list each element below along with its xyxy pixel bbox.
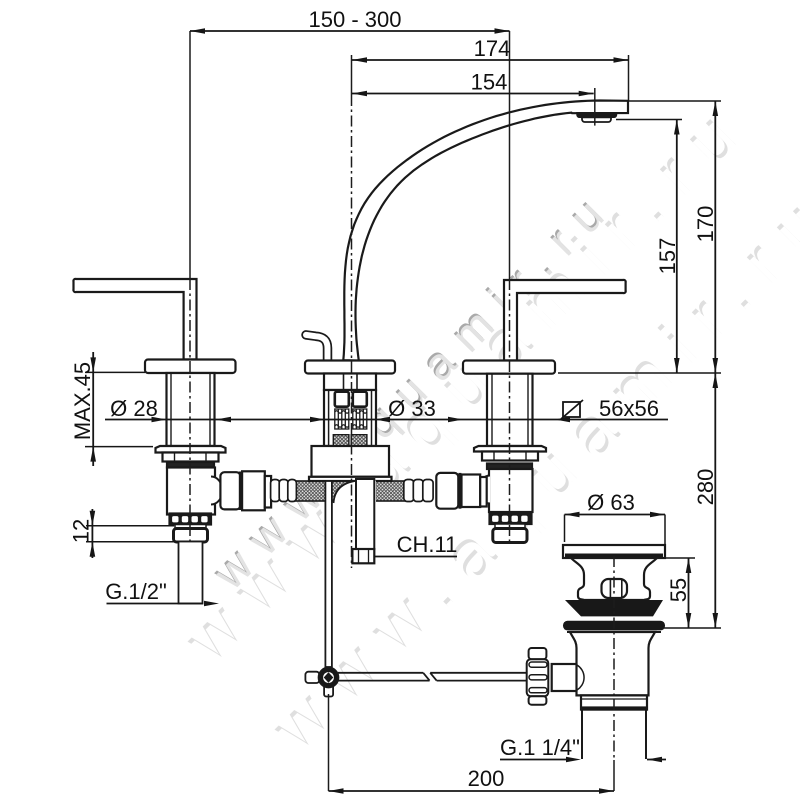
dim 154 line [352,93,594,95]
left escutcheon [145,360,236,374]
svg-text:G.1 1/4": G.1 1/4" [500,735,580,760]
svg-text:174: 174 [474,36,511,61]
center escutcheon [305,361,395,374]
drain crown nut [527,648,549,705]
CH.11 leader [374,556,457,558]
svg-text:Ø 33: Ø 33 [388,396,436,421]
ext Ø63 right [664,515,666,557]
black cone seat [565,600,663,616]
svg-text:MAX.45: MAX.45 [70,362,95,440]
pop-up rod knob above deck [306,335,328,361]
left side hex 2 [242,471,265,510]
svg-text:154: 154 [471,70,508,95]
svg-text:170: 170 [693,206,718,243]
ext 55 cap bottom [666,557,695,559]
center neck [324,374,376,391]
centerlines layer [190,31,629,791]
dim 157 line [676,120,678,374]
ext drain gasket bottom [664,627,721,629]
right seal band [487,464,532,470]
left ferrule [271,480,297,502]
dim 280 line [714,373,716,628]
cartridge window right [353,392,367,407]
svg-text:CH.11: CH.11 [397,532,458,557]
right escutcheon [463,361,555,374]
dimension layer [85,28,721,794]
left tailpiece tube [179,542,203,604]
dim 55 line [688,558,690,628]
strainer neck [571,558,657,600]
spout tip extension line [628,55,630,101]
pop-up lift rod [325,481,332,667]
left valve upper cylinder [167,373,215,446]
dim Ø63 line [565,514,666,516]
left handle centerline [189,31,191,279]
left side bulge [211,477,223,505]
svg-text:Ø 28: Ø 28 [110,396,158,421]
dim 150-300 line [190,30,510,32]
tailpipe tube [582,710,646,759]
drain left branch pipe [552,664,577,691]
center down tube [356,479,374,549]
ext 157 aerator [616,119,682,121]
dim MAX.45 line [92,352,94,466]
left side neck [265,476,271,508]
G.1 1/4 leader left [500,759,566,761]
spout body [343,101,628,361]
svg-text:56x56: 56x56 [599,396,659,421]
right side neck [480,477,487,507]
watermark layer [169,84,800,770]
left hose braid [294,481,406,501]
ext 170 spout top [629,100,722,102]
right side hex 1 [436,473,458,509]
ext MAX.45 bottom [85,446,153,448]
center shank outer walls [324,390,376,446]
left lever handle [73,279,196,360]
black gasket ring [563,621,665,631]
rod ball joint [305,672,319,683]
right valve body below deck [489,469,533,512]
ext Ø63 left [564,515,566,543]
svg-text:150 - 300: 150 - 300 [309,7,402,32]
branch arc [577,665,584,690]
shared diameter dim line y419.5 [105,419,668,421]
left seal band [167,462,214,468]
tee elbow white [334,481,377,509]
svg-text:55: 55 [666,578,691,602]
pop-up knob [602,579,628,598]
pop rod extension line [328,694,330,791]
dim 170 line [714,101,716,373]
faucet parts layer [73,101,665,760]
left side hex 1 [220,472,240,509]
left serrated nut [170,514,212,525]
drain body [570,632,655,695]
dim 200 line [329,790,615,792]
right handle centerline [509,31,511,279]
cartridge splines left [335,409,349,429]
svg-text:12: 12 [69,519,94,543]
aerator extension line [594,88,596,126]
aerator [577,113,617,118]
svg-text:157: 157 [655,238,680,275]
right side hex 2 [462,475,481,508]
square symbol 56x56 [563,402,580,417]
dim 12 line [91,509,93,558]
center body block [312,446,390,477]
left valve body below deck [167,468,215,515]
left mounting hex [163,453,219,462]
text layer [69,7,719,791]
G.1 1/4 leader right [647,759,666,761]
left G1/2 collar [175,525,206,529]
cartridge window left [335,392,349,407]
svg-text:200: 200 [468,766,505,791]
drain centerline [613,556,615,760]
right ferrule [404,480,433,502]
right deck flange [474,446,546,452]
threaded shank hatch left [333,435,349,446]
left deck flange [156,446,226,453]
right serrated nut [490,513,532,524]
spout tube through neck [343,374,345,391]
ext 12 bottom [86,541,178,543]
right lever handle [504,280,626,361]
right valve upper cylinder [487,374,533,446]
svg-text:Ø 63: Ø 63 [587,490,635,515]
right side bulge [479,476,491,504]
svg-text:280: 280 [693,469,718,506]
tailpipe collar [581,695,647,709]
right mounting hex [482,452,538,461]
center body lip [309,477,392,481]
right G1/2 collar [495,524,525,529]
spout centerline [351,55,353,95]
dim 174 line [352,59,629,61]
svg-text:G.1/2": G.1/2" [105,579,167,604]
ext 12 top [86,525,174,527]
ext MAX.45 top [85,371,145,373]
CH11 hex [352,549,374,563]
horizontal pop rod [338,673,430,681]
G.1/2 leader [107,603,204,605]
ext deck level right [558,372,721,374]
drain strainer cap [563,545,665,558]
threaded shank hatch right [351,435,367,446]
